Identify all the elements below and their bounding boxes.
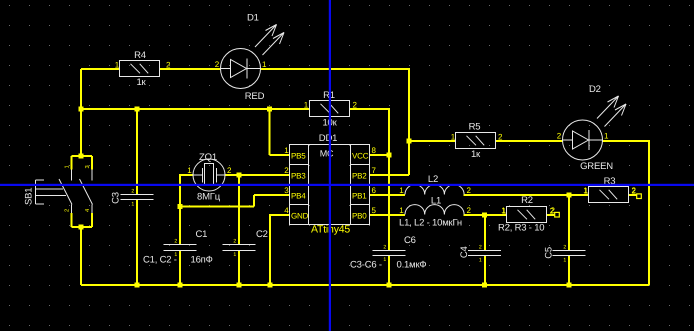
svg-text:R5: R5 xyxy=(469,122,481,133)
svg-text:2: 2 xyxy=(383,245,386,251)
svg-text:D2: D2 xyxy=(589,84,601,95)
svg-text:PB5: PB5 xyxy=(291,152,306,161)
svg-text:2: 2 xyxy=(467,186,472,195)
svg-text:C5: C5 xyxy=(544,247,555,259)
svg-text:PB1: PB1 xyxy=(352,192,367,201)
svg-text:2: 2 xyxy=(131,189,134,195)
svg-text:C3: C3 xyxy=(111,192,122,204)
svg-text:8МГц: 8МГц xyxy=(197,192,221,203)
svg-text:R4: R4 xyxy=(134,50,146,61)
svg-text:PB3: PB3 xyxy=(291,172,306,181)
svg-text:2: 2 xyxy=(233,239,236,245)
svg-text:C4: C4 xyxy=(459,246,470,258)
svg-text:PB0: PB0 xyxy=(352,212,367,221)
svg-text:3: 3 xyxy=(284,186,289,195)
svg-text:2: 2 xyxy=(174,239,177,245)
svg-text:C2: C2 xyxy=(256,229,268,240)
svg-text:2: 2 xyxy=(479,245,482,251)
svg-text:1: 1 xyxy=(399,186,404,195)
svg-text:2: 2 xyxy=(563,245,566,251)
svg-text:2: 2 xyxy=(467,206,472,215)
svg-text:1: 1 xyxy=(131,201,134,207)
svg-text:GND: GND xyxy=(291,212,309,221)
svg-text:L1, L2 - 10мкГн: L1, L2 - 10мкГн xyxy=(399,218,462,229)
svg-text:2: 2 xyxy=(557,132,562,141)
svg-text:R2, R3 - 10: R2, R3 - 10 xyxy=(498,223,544,234)
svg-text:ZQ1: ZQ1 xyxy=(199,152,217,163)
svg-text:2: 2 xyxy=(632,186,637,195)
svg-text:4: 4 xyxy=(284,206,289,215)
svg-text:1: 1 xyxy=(604,132,609,141)
svg-text:1к: 1к xyxy=(136,77,146,88)
svg-text:DD1: DD1 xyxy=(319,133,337,144)
svg-text:C6: C6 xyxy=(404,235,416,246)
svg-text:1: 1 xyxy=(233,252,236,258)
svg-text:1: 1 xyxy=(187,166,192,175)
svg-text:C1, C2 -: C1, C2 - xyxy=(143,255,177,266)
svg-text:1: 1 xyxy=(284,146,289,155)
svg-text:SB1: SB1 xyxy=(24,188,35,205)
svg-text:PB4: PB4 xyxy=(291,192,306,201)
svg-text:3: 3 xyxy=(84,165,91,168)
svg-text:4: 4 xyxy=(85,208,91,212)
svg-text:1: 1 xyxy=(479,257,482,263)
svg-text:PB2: PB2 xyxy=(352,172,367,181)
svg-text:L2: L2 xyxy=(428,174,438,185)
svg-text:2: 2 xyxy=(215,60,220,69)
svg-text:1к: 1к xyxy=(471,149,481,160)
svg-text:L1: L1 xyxy=(431,196,441,207)
svg-text:2: 2 xyxy=(284,166,289,175)
svg-text:D1: D1 xyxy=(247,13,259,24)
svg-text:1: 1 xyxy=(262,60,267,69)
svg-text:0.1мкФ: 0.1мкФ xyxy=(397,260,427,271)
svg-text:5: 5 xyxy=(372,206,377,215)
svg-text:2: 2 xyxy=(64,209,71,212)
svg-text:2: 2 xyxy=(227,166,232,175)
svg-text:8: 8 xyxy=(372,146,377,155)
svg-text:R2: R2 xyxy=(521,195,533,206)
svg-text:6: 6 xyxy=(372,186,377,195)
svg-text:7: 7 xyxy=(372,166,377,175)
svg-text:RED: RED xyxy=(245,91,265,102)
svg-text:1: 1 xyxy=(65,165,71,168)
svg-text:VCC: VCC xyxy=(352,152,369,161)
svg-text:1: 1 xyxy=(563,257,566,263)
svg-text:1: 1 xyxy=(399,206,404,215)
svg-text:16пФ: 16пФ xyxy=(191,255,213,266)
svg-text:MC: MC xyxy=(320,149,334,159)
svg-text:C1: C1 xyxy=(196,229,208,240)
svg-text:GREEN: GREEN xyxy=(580,161,613,172)
svg-text:1: 1 xyxy=(383,257,386,263)
svg-text:C3-C6 -: C3-C6 - xyxy=(350,260,382,271)
